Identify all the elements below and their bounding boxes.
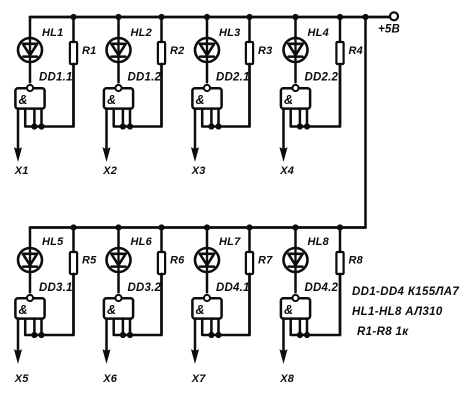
svg-text:DD3.1: DD3.1	[39, 282, 73, 294]
svg-text:X3: X3	[191, 165, 206, 177]
svg-text:R8: R8	[349, 255, 364, 267]
svg-text:X7: X7	[191, 373, 207, 385]
svg-text:&: &	[196, 303, 205, 317]
svg-text:X2: X2	[102, 165, 117, 177]
svg-text:R2: R2	[170, 45, 184, 57]
svg-text:&: &	[19, 93, 28, 107]
svg-text:&: &	[284, 303, 293, 317]
svg-text:HL1-HL8 АЛ310: HL1-HL8 АЛ310	[352, 306, 443, 318]
svg-text:X5: X5	[14, 373, 30, 385]
svg-text:DD1-DD4 К155ЛА7: DD1-DD4 К155ЛА7	[352, 286, 459, 298]
svg-text:+5В: +5В	[378, 24, 400, 36]
svg-text:R7: R7	[258, 255, 273, 267]
svg-text:R1-R8 1к: R1-R8 1к	[357, 326, 409, 338]
svg-text:X4: X4	[279, 165, 294, 177]
svg-text:R5: R5	[82, 255, 97, 267]
svg-text:HL7: HL7	[219, 236, 241, 248]
svg-text:DD1.1: DD1.1	[39, 72, 73, 84]
svg-text:X6: X6	[102, 373, 118, 385]
svg-text:HL1: HL1	[42, 27, 63, 39]
svg-text:HL6: HL6	[131, 236, 153, 248]
svg-text:DD3.2: DD3.2	[128, 282, 162, 294]
svg-text:&: &	[107, 93, 116, 107]
svg-text:DD1.2: DD1.2	[128, 72, 162, 84]
svg-text:&: &	[284, 93, 293, 107]
svg-text:&: &	[19, 303, 28, 317]
svg-text:R6: R6	[170, 255, 185, 267]
svg-text:R4: R4	[349, 45, 363, 57]
svg-text:HL8: HL8	[308, 236, 330, 248]
svg-text:HL3: HL3	[219, 27, 240, 39]
svg-text:DD2.2: DD2.2	[305, 72, 339, 84]
svg-text:R1: R1	[82, 45, 96, 57]
svg-text:&: &	[107, 303, 116, 317]
svg-text:X8: X8	[279, 373, 295, 385]
svg-text:HL4: HL4	[308, 27, 329, 39]
svg-text:X1: X1	[14, 165, 29, 177]
svg-text:DD4.1: DD4.1	[216, 282, 250, 294]
svg-text:DD4.2: DD4.2	[305, 282, 339, 294]
svg-text:DD2.1: DD2.1	[216, 72, 250, 84]
svg-text:&: &	[196, 93, 205, 107]
svg-text:R3: R3	[258, 45, 272, 57]
svg-text:HL5: HL5	[42, 236, 64, 248]
svg-text:HL2: HL2	[131, 27, 152, 39]
